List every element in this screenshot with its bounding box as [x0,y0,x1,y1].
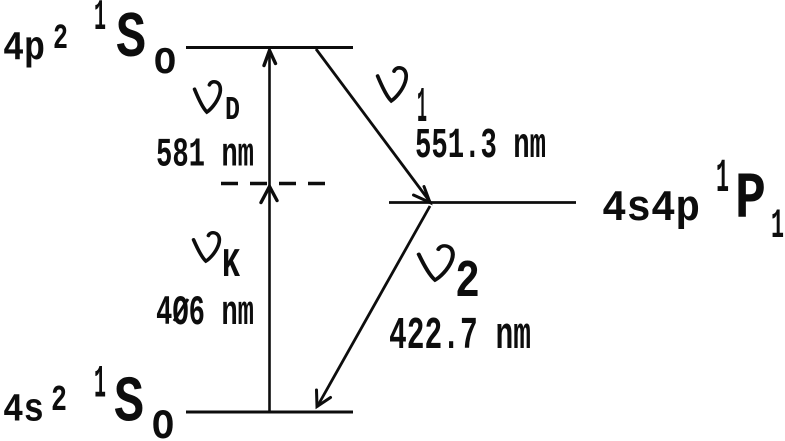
svg-text:O: O [152,403,174,441]
label nu_1 [378,68,427,137]
svg-text:D: D [225,92,240,129]
level line 4s2 1S0 (bottom) [186,411,353,414]
svg-text:581 nm: 581 nm [156,133,254,179]
arrowhead up at top level [264,51,276,66]
svg-text:4O6 nm: 4O6 nm [156,289,254,337]
svg-text:551.3 nm: 551.3 nm [415,121,546,170]
label nu_2 [419,246,480,312]
wire nu1 diagonal [316,49,431,203]
arrowhead up at dashed level [261,187,277,203]
wire nu2 diagonal [317,206,430,407]
label 406 nm [156,289,254,337]
label nu_D [195,82,240,129]
svg-text:1: 1 [716,153,729,206]
arrowhead nu2 [317,390,331,407]
svg-text:4s: 4s [3,389,44,434]
svg-text:S: S [116,2,146,76]
svg-text:K: K [222,243,240,289]
level line 4s4p 1P1 (middle right) [389,201,576,204]
svg-text:2: 2 [53,19,68,59]
svg-text:422.7 nm: 422.7 nm [389,311,531,362]
slash of zero [174,299,188,321]
label 4s4p 1P1 [602,153,784,250]
label nu_K [194,233,241,289]
arrowhead nu1 [414,187,431,203]
level line 4p2 1S0 (top) [186,46,353,49]
dashed virtual level [221,182,325,186]
svg-text:1: 1 [771,202,784,250]
svg-text:1: 1 [94,359,106,411]
label 4s2 1S0 [3,359,174,441]
svg-text:2: 2 [51,380,67,421]
svg-text:2: 2 [455,252,480,312]
svg-text:S: S [114,367,144,441]
svg-text:O: O [154,42,176,85]
svg-text:4p: 4p [3,26,45,72]
label 4p2 1S0 [3,0,176,85]
svg-text:4s4p: 4s4p [602,184,700,234]
svg-text:1: 1 [94,0,106,43]
svg-text:P: P [735,162,766,237]
vertical pump arrow line [268,50,271,412]
